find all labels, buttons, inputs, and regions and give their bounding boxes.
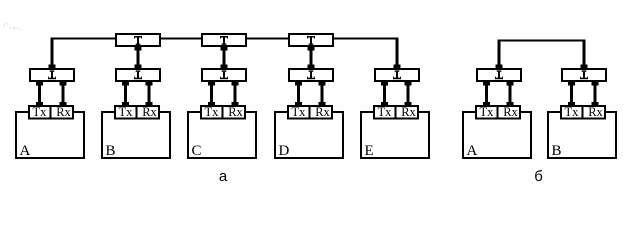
svg-text:Tx: Tx — [480, 105, 495, 119]
svg-text:Rx: Rx — [401, 105, 416, 119]
transceiver box Tx/Rx station D — [287, 105, 333, 120]
svg-text:C: C — [192, 143, 202, 159]
tap box T2 — [201, 33, 247, 47]
wire Tx stub station A — [36, 82, 43, 106]
wire Tx stub station C — [208, 82, 215, 106]
wire Rx stub station E — [405, 82, 412, 106]
station box B2 — [547, 111, 617, 159]
station box A2 — [462, 111, 532, 159]
svg-text:а: а — [219, 168, 228, 185]
transceiver box Tx/Rx station B — [114, 105, 160, 120]
wire Tx stub station D — [295, 82, 302, 106]
station box D — [274, 111, 344, 159]
svg-text:D: D — [279, 143, 290, 159]
tap interface box (inverted T) station B2 — [561, 68, 607, 82]
tap interface box (inverted T) station A2 — [476, 68, 522, 82]
wire bus T1 to T2 — [161, 38, 201, 40]
wire bus T3 elbow to station E — [334, 38, 401, 69]
svg-text:Rx: Rx — [503, 105, 518, 119]
wire stub tap T2 to interface — [221, 47, 228, 68]
wire bus T2 to T3 — [247, 38, 288, 40]
svg-text:E: E — [365, 143, 374, 159]
svg-text:Rx: Rx — [56, 105, 71, 119]
station box A — [15, 111, 85, 159]
wire Rx stub station B2 — [592, 82, 599, 106]
wire Rx stub station A2 — [507, 82, 514, 106]
tap interface box (inverted T) station D — [288, 68, 334, 82]
tap interface box (inverted T) station E — [374, 68, 420, 82]
wire Rx stub station C — [232, 82, 239, 106]
tap interface box (inverted T) station A — [29, 68, 75, 82]
wire Tx stub station A2 — [483, 82, 490, 106]
tap interface box (inverted T) station C — [201, 68, 247, 82]
station box C — [187, 111, 257, 159]
transceiver box Tx/Rx station A2 — [475, 105, 521, 120]
station box B — [101, 111, 171, 159]
svg-text:Tx: Tx — [205, 105, 220, 119]
svg-text:Rx: Rx — [315, 105, 330, 119]
svg-text:Tx: Tx — [565, 105, 580, 119]
svg-text:Rx: Rx — [228, 105, 243, 119]
transceiver box Tx/Rx station A — [28, 105, 74, 120]
svg-text:б: б — [534, 168, 543, 185]
tap interface box (inverted T) station B — [115, 68, 161, 82]
wire stub tap T3 to interface — [308, 47, 315, 68]
wire bus elbow to station A — [49, 38, 116, 69]
svg-text:Tx: Tx — [292, 105, 307, 119]
station box E — [360, 111, 430, 159]
wire stub tap T1 to interface — [135, 47, 142, 68]
wire Tx stub station B2 — [568, 82, 575, 106]
wire bus part b connecting both stations — [496, 40, 588, 69]
wire Rx stub station D — [319, 82, 326, 106]
svg-text:B: B — [106, 143, 116, 159]
faint artifact specks (near-invisible) — [3, 23, 22, 31]
svg-text:Tx: Tx — [33, 105, 48, 119]
tap box T3 — [288, 33, 334, 47]
transceiver box Tx/Rx station C — [200, 105, 246, 120]
wire Rx stub station B — [146, 82, 153, 106]
svg-text:B: B — [552, 143, 562, 159]
svg-text:Tx: Tx — [119, 105, 134, 119]
tap box T1 — [115, 33, 161, 47]
svg-text:Tx: Tx — [378, 105, 393, 119]
transceiver box Tx/Rx station E — [373, 105, 419, 120]
wire Rx stub station A — [60, 82, 67, 106]
svg-text:Rx: Rx — [588, 105, 603, 119]
svg-text:A: A — [467, 143, 478, 159]
transceiver box Tx/Rx station B2 — [560, 105, 606, 120]
wire Tx stub station B — [122, 82, 129, 106]
svg-text:A: A — [20, 143, 31, 159]
wire Tx stub station E — [381, 82, 388, 106]
svg-text:Rx: Rx — [142, 105, 157, 119]
